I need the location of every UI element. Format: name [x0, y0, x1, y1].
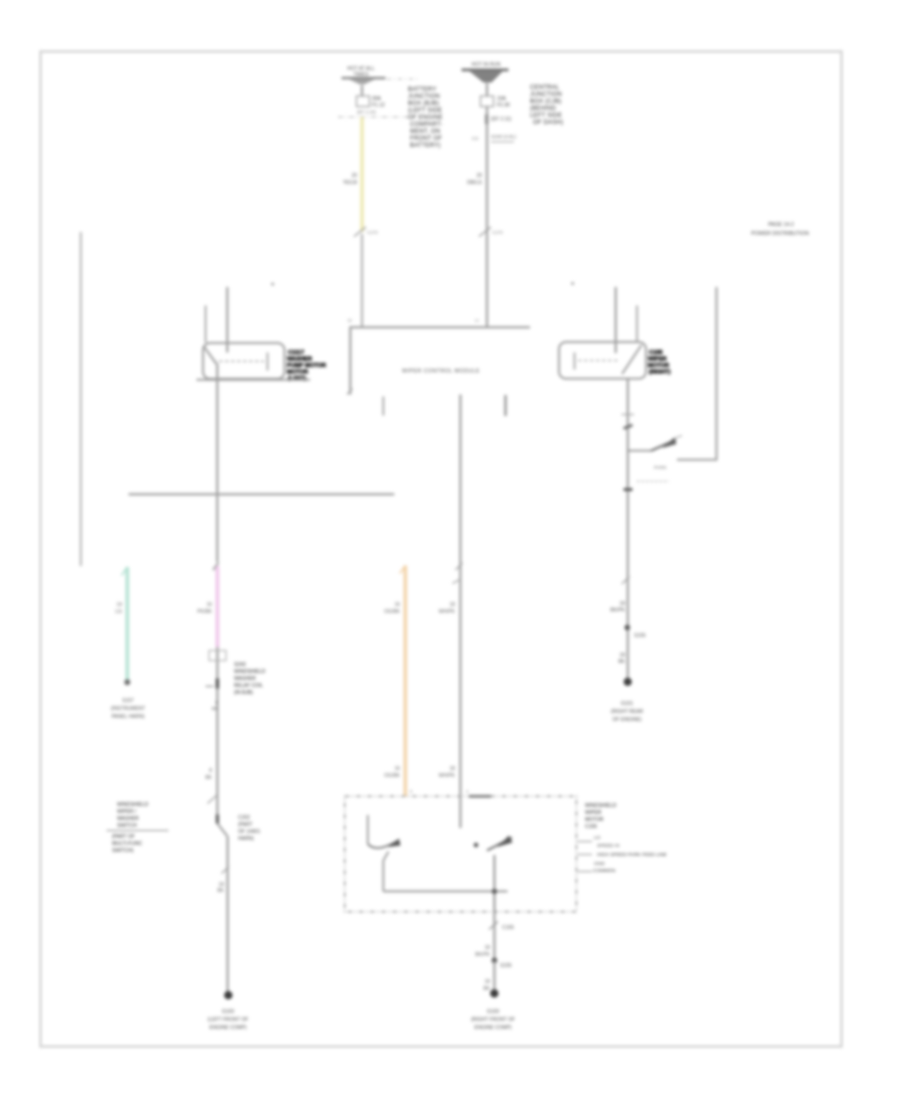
- svg-text:PARK: PARK: [654, 465, 668, 471]
- svg-text:BK/PK: BK/PK: [610, 608, 625, 614]
- svg-text:20: 20: [476, 173, 482, 179]
- park switch arm: [651, 440, 676, 451]
- svg-text:5: 5: [410, 789, 413, 794]
- svg-text:COMPART-: COMPART-: [410, 122, 443, 128]
- svg-text:OF DASH): OF DASH): [533, 120, 563, 126]
- svg-text:MOTOR: MOTOR: [648, 363, 669, 369]
- module pin stub 2: [504, 395, 507, 416]
- svg-text:SPEED HI: SPEED HI: [597, 843, 619, 849]
- connector dashes on right wire: [622, 414, 635, 416]
- svg-text:BK: BK: [217, 888, 224, 894]
- long reference line (far left): [80, 232, 82, 566]
- svg-text:SWITCH: SWITCH: [117, 823, 137, 829]
- svg-text:C1117: C1117: [288, 350, 304, 356]
- svg-text:(RIGHT): (RIGHT): [649, 370, 671, 376]
- svg-text:F1.12: F1.12: [372, 103, 385, 109]
- dash-dot line right of bus: [387, 78, 417, 80]
- svg-text:G100: G100: [487, 1009, 499, 1015]
- svg-text:WIPER /: WIPER /: [117, 809, 137, 815]
- wire down from washer pump: [216, 364, 218, 563]
- svg-text:ENGINE COMP): ENGINE COMP): [474, 1025, 512, 1031]
- svg-text:S243: S243: [234, 662, 246, 668]
- svg-text:G100: G100: [222, 1009, 234, 1015]
- svg-text:OF ENGINE: OF ENGINE: [408, 115, 443, 121]
- svg-text:BATTERY: BATTERY: [408, 87, 437, 93]
- wire to ground center: [493, 961, 495, 991]
- wiper motor body: [559, 342, 646, 379]
- run dotted row: [637, 480, 669, 482]
- svg-text:LEFT SIDE: LEFT SIDE: [530, 113, 562, 119]
- svg-text:20: 20: [351, 173, 357, 179]
- callout leader lines: [578, 841, 593, 843]
- orange branch lead-in: [400, 566, 406, 574]
- svg-text:G101: G101: [621, 701, 633, 707]
- svg-text:JUNCTION: JUNCTION: [530, 92, 562, 98]
- svg-text:CENTRAL: CENTRAL: [530, 85, 560, 91]
- svg-text:COMMON: COMMON: [593, 868, 616, 874]
- tick on right ground wire: [622, 577, 630, 585]
- left callout block: [117, 802, 149, 829]
- svg-text:(PART: (PART: [238, 822, 253, 828]
- wire into washer pump (left): [226, 287, 228, 353]
- cyan wire label: [115, 602, 122, 615]
- svg-text:18: 18: [449, 602, 455, 608]
- wire down from wiper motor: [627, 379, 629, 681]
- wire stem F2: [486, 83, 488, 96]
- svg-text:(INSTRUMENT: (INSTRUMENT: [111, 706, 145, 712]
- svg-text:16: 16: [206, 602, 212, 608]
- svg-text:C202: C202: [238, 815, 250, 821]
- svg-text:JUNCTION: JUNCTION: [408, 94, 440, 100]
- power bus symbol (top-left): [342, 77, 386, 84]
- svg-text:BATTERY): BATTERY): [410, 143, 441, 149]
- orange wire label bottom: [384, 766, 401, 779]
- washer pump internal contact: [213, 360, 264, 362]
- center wire from module to motor box: [459, 395, 461, 829]
- svg-text:GND: GND: [594, 861, 605, 867]
- svg-text:ENGINE COMP): ENGINE COMP): [209, 1025, 247, 1031]
- svg-text:C270: C270: [492, 230, 503, 235]
- wiper module left edge: [349, 327, 351, 395]
- svg-text:PK/BK: PK/BK: [197, 609, 212, 615]
- wire 2 into washer pump: [205, 306, 207, 343]
- orange wire label top: [384, 602, 401, 615]
- wire below motor box: [493, 912, 495, 959]
- svg-text:F2.30: F2.30: [497, 103, 510, 109]
- connector bracket on left wire: [209, 651, 226, 661]
- connector mark below switch: [624, 488, 633, 491]
- wiper motor assembly dashed box: [345, 796, 577, 912]
- module pin stub 1: [382, 397, 384, 416]
- svg-text:4: 4: [466, 789, 469, 794]
- ground dot right: [624, 678, 632, 686]
- svg-text:WH/PK: WH/PK: [439, 609, 456, 615]
- label on ground wire: [217, 882, 224, 894]
- svg-text:BK/PK: BK/PK: [475, 952, 490, 958]
- right reference line: [716, 287, 718, 461]
- svg-text:(RIGHT FRONT OF: (RIGHT FRONT OF: [471, 1017, 515, 1023]
- svg-text:30A: 30A: [372, 96, 382, 102]
- svg-text:SWITCH): SWITCH): [112, 848, 134, 854]
- svg-text:WINDSHIELD: WINDSHIELD: [585, 803, 617, 809]
- svg-text:OF ENGINE): OF ENGINE): [612, 717, 642, 723]
- svg-text:C270: C270: [367, 230, 378, 235]
- svg-text:C155: C155: [649, 350, 663, 356]
- dash-dot separator line: [338, 116, 415, 118]
- relay bottom rail: [383, 890, 507, 892]
- relay contact right: [474, 843, 479, 848]
- svg-text:18: 18: [619, 601, 625, 607]
- svg-text:(EF 2.11): (EF 2.11): [491, 117, 512, 123]
- svg-text:C3: C3: [472, 136, 478, 142]
- svg-text:PANEL HARN): PANEL HARN): [111, 714, 144, 720]
- svg-text:(RIGHT REAR: (RIGHT REAR: [611, 709, 644, 715]
- svg-text:BOX (BJB): BOX (BJB): [408, 101, 439, 107]
- ground dot left: [224, 991, 232, 999]
- svg-text:BK: BK: [205, 775, 212, 781]
- svg-text:WH/PK: WH/PK: [439, 773, 456, 779]
- ticks on center wire: [456, 563, 463, 570]
- svg-text:(LEFT SIDE: (LEFT SIDE: [408, 108, 442, 114]
- svg-text:WINDSHIELD: WINDSHIELD: [234, 669, 266, 675]
- svg-text:18: 18: [484, 945, 490, 951]
- svg-text:16: 16: [394, 766, 400, 772]
- module left edge end tick: [347, 389, 353, 395]
- svg-text:MENT, ON: MENT, ON: [410, 129, 440, 135]
- svg-text:S155: S155: [500, 963, 512, 969]
- svg-text:HIGH SPEED PARK FEED LINE: HIGH SPEED PARK FEED LINE: [597, 852, 667, 858]
- center wire label bottom: [439, 766, 456, 779]
- wiper motor lever diagonal: [622, 345, 642, 374]
- tick above jog connector: [208, 796, 217, 804]
- wiper motor internal tick: [574, 353, 576, 370]
- pink wire label: [197, 602, 212, 615]
- label above center ground: [483, 979, 490, 992]
- cyan end label: [111, 698, 145, 720]
- pink transition mark: [213, 563, 219, 571]
- svg-text:18: 18: [449, 766, 455, 772]
- power bus symbol (top-right): [462, 69, 509, 83]
- park feed line: [677, 459, 717, 461]
- jog diagonal: [217, 824, 227, 837]
- right wire label: [610, 601, 625, 614]
- junction dot on rail: [492, 889, 497, 894]
- svg-text:8: 8: [209, 768, 212, 774]
- svg-text:18: 18: [619, 653, 625, 659]
- power feed label F2 (top-right): [471, 62, 500, 68]
- wire to ground left: [227, 837, 229, 992]
- washer pump body: [203, 343, 285, 379]
- svg-text:16: 16: [394, 602, 400, 608]
- park switch contact: [628, 450, 651, 452]
- ground label center: [471, 1009, 515, 1031]
- svg-text:LO: LO: [594, 835, 601, 841]
- connector label with leader on F2 wire: [472, 134, 517, 142]
- dark dash on box top: [469, 795, 491, 797]
- connector C1 on left wire: [354, 227, 366, 237]
- wire yellow from F1: [360, 117, 364, 232]
- small label below splice: [212, 700, 219, 712]
- svg-text:14: 14: [116, 602, 122, 608]
- svg-text:18: 18: [484, 979, 490, 985]
- svg-text:POWER DISTRIBUTION: POWER DISTRIBUTION: [751, 231, 809, 237]
- svg-text:(LEFT FRONT OF: (LEFT FRONT OF: [208, 1017, 249, 1023]
- wire label 20 YE/BK: [343, 173, 358, 186]
- svg-text:LG: LG: [115, 609, 122, 615]
- svg-text:WIPER CONTROL MODULE: WIPER CONTROL MODULE: [402, 369, 480, 375]
- svg-text:(IN BJB): (IN BJB): [234, 690, 253, 696]
- wiper motor internal contact: [578, 360, 620, 362]
- wiper motor connector label: [648, 350, 671, 376]
- svg-text:WINDSHIELD: WINDSHIELD: [117, 802, 149, 808]
- svg-text:PAGE 14-2: PAGE 14-2: [768, 222, 794, 228]
- svg-text:30: 30: [347, 318, 352, 323]
- svg-text:(PART OF: (PART OF: [112, 834, 135, 840]
- ground label left: [208, 1009, 249, 1031]
- connector tick below box: [489, 922, 498, 930]
- left wire continues gray: [216, 647, 218, 815]
- cyan branch lead-in: [122, 567, 128, 576]
- svg-text:RELAY COIL: RELAY COIL: [234, 683, 263, 689]
- wiper module top line: [350, 326, 531, 328]
- svg-text:OG/BK: OG/BK: [384, 609, 401, 615]
- svg-text:OF 14401: OF 14401: [238, 829, 260, 835]
- svg-text:(BEHIND: (BEHIND: [530, 106, 557, 112]
- wire stem F1: [361, 85, 363, 96]
- svg-text:10A: 10A: [497, 96, 507, 102]
- svg-text:DB/LG: DB/LG: [467, 180, 482, 186]
- svg-text:BOX (CJB): BOX (CJB): [530, 99, 561, 105]
- splice dot S3: [625, 625, 631, 631]
- svg-text:15: 15: [474, 318, 479, 323]
- connector mark before jog: [216, 815, 219, 824]
- battery junction box label: [408, 87, 443, 149]
- center wire label top: [439, 602, 456, 615]
- svg-text:WASHER: WASHER: [287, 357, 312, 363]
- svg-text:WASHER: WASHER: [234, 676, 256, 682]
- svg-text:C155: C155: [502, 925, 514, 931]
- svg-text:HARN): HARN): [238, 836, 254, 842]
- tick on ground wire: [222, 867, 230, 874]
- wire into wiper motor (right): [615, 287, 617, 353]
- wire label below box: [475, 945, 490, 958]
- svg-text:C155: C155: [585, 824, 597, 830]
- ground dot center: [490, 989, 498, 997]
- svg-text:BK: BK: [483, 986, 490, 992]
- splice tap on left wire: [216, 679, 219, 689]
- svg-text:WIPER: WIPER: [648, 357, 667, 363]
- connector tick below fuse F2: [485, 115, 488, 125]
- svg-text:S155: S155: [634, 633, 646, 639]
- svg-text:MOTOR: MOTOR: [585, 817, 604, 823]
- svg-text:PUMP MOTOR: PUMP MOTOR: [287, 363, 326, 369]
- wire label F2: [467, 173, 482, 186]
- central junction box label: [530, 85, 563, 126]
- wire gray from F2: [486, 107, 488, 328]
- page reference label (right): [751, 222, 809, 237]
- svg-text:S240 (4.6L): S240 (4.6L): [491, 134, 516, 140]
- svg-text:HOT IN RUN: HOT IN RUN: [471, 62, 500, 68]
- pink wire: [216, 566, 220, 647]
- svg-text:BK: BK: [212, 706, 219, 712]
- washer pump connector label: [287, 350, 326, 382]
- ground label right: [611, 701, 644, 723]
- right small block near jog: [238, 815, 260, 842]
- svg-text:MOTOR: MOTOR: [287, 370, 308, 376]
- right wire label 2: [618, 653, 625, 666]
- cyan wire: [126, 567, 130, 681]
- power feed label F1 (top-left): [347, 66, 375, 78]
- cyan end dot: [124, 679, 130, 685]
- svg-text:FRONT OF: FRONT OF: [410, 136, 442, 142]
- splice dot S2: [571, 282, 574, 285]
- svg-text:(EF 2.10): (EF 2.10): [357, 110, 376, 115]
- splice dot center: [492, 958, 498, 964]
- connector C2 on right wire: [479, 227, 491, 237]
- svg-text:8: 8: [215, 700, 218, 706]
- svg-text:WASHER: WASHER: [117, 816, 139, 822]
- svg-text:WIPER: WIPER: [585, 810, 602, 816]
- wire label mid: [205, 768, 212, 781]
- splice dot S1: [271, 283, 274, 286]
- svg-text:BK: BK: [618, 659, 625, 665]
- svg-text:OG/BK: OG/BK: [384, 773, 401, 779]
- splice label block: [234, 662, 266, 696]
- washer pump lever diagonal: [204, 346, 217, 364]
- wire 2 into wiper motor: [636, 306, 638, 342]
- svg-text:S157: S157: [122, 698, 134, 704]
- svg-text:MULTI-FUNC: MULTI-FUNC: [112, 841, 143, 847]
- wire gray to module: [361, 234, 363, 328]
- fuse F1: [357, 96, 370, 107]
- motor label right of box: [585, 803, 617, 830]
- svg-text:YE/LB: YE/LB: [343, 180, 358, 186]
- crossing bus line: [129, 493, 395, 495]
- orange wire: [403, 566, 407, 797]
- washer pump bottom rail: [197, 379, 311, 381]
- relay contact left: [367, 815, 369, 844]
- fuse F2: [481, 96, 494, 107]
